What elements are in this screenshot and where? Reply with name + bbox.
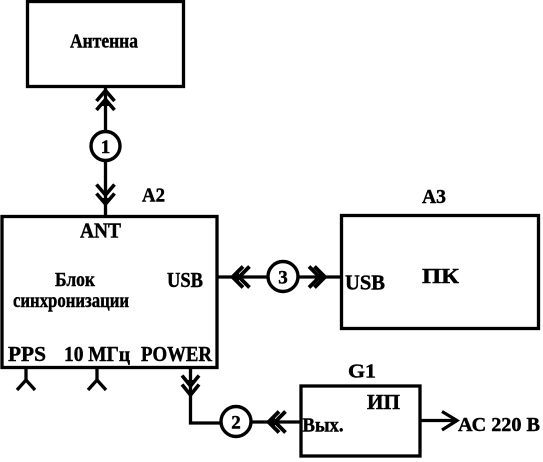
node 2 cable marker	[221, 407, 251, 437]
arrowhead down into A2 ANT	[97, 185, 115, 205]
block A2 Блок синхронизации	[2, 217, 217, 368]
svg-text:2: 2	[231, 413, 241, 434]
arrowhead up into antenna	[97, 91, 115, 111]
wire A2 USB to node 3	[218, 275, 268, 278]
svg-text:1: 1	[101, 137, 111, 158]
svg-text:ИП: ИП	[367, 390, 400, 414]
arrowhead left toward A2	[233, 267, 250, 288]
10 МГц output stub	[88, 369, 106, 391]
block G1 ИП	[301, 386, 420, 456]
svg-text:Антенна: Антенна	[70, 31, 138, 53]
svg-text:USB: USB	[345, 271, 385, 295]
node 3 cable marker	[268, 262, 298, 292]
svg-text:USB: USB	[167, 268, 203, 292]
svg-text:Блок: Блок	[55, 269, 95, 291]
svg-text:POWER: POWER	[141, 342, 213, 366]
wire node 3 to A3 USB	[298, 275, 341, 278]
svg-text:ПК: ПК	[422, 264, 460, 288]
svg-text:АС 220 В: АС 220 В	[458, 414, 540, 436]
svg-text:10 МГц: 10 МГц	[64, 342, 130, 366]
svg-text:Вых.: Вых.	[303, 415, 344, 437]
svg-text:G1: G1	[348, 361, 376, 383]
svg-text:PPS: PPS	[8, 342, 46, 366]
arrowhead down from POWER	[182, 376, 199, 396]
svg-text:A3: A3	[422, 186, 446, 208]
svg-text:ANT: ANT	[80, 219, 121, 243]
svg-text:A2: A2	[142, 185, 165, 207]
svg-text:3: 3	[278, 268, 288, 289]
wire G1 to AC 220	[420, 419, 455, 422]
wire node 2 to G1 Вых	[251, 420, 301, 423]
arrowhead left toward node 2	[269, 412, 286, 433]
node 1 cable marker	[91, 132, 120, 161]
arrowhead right toward A3	[309, 267, 325, 288]
block A3 ПК	[342, 216, 539, 329]
arrowhead right AC 220	[442, 412, 457, 431]
PPS output stub	[17, 369, 35, 391]
wire antenna to A2	[104, 87, 107, 216]
wire A2 POWER to node 2	[191, 368, 222, 423]
block Антенна	[28, 2, 184, 87]
svg-text:синхронизации: синхронизации	[13, 290, 129, 312]
